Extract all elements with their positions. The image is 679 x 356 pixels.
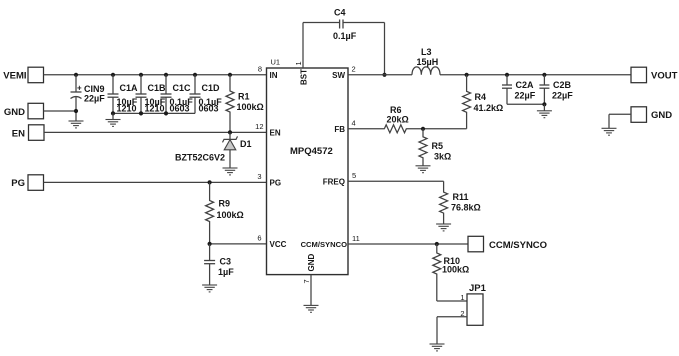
svg-text:C3: C3 xyxy=(220,257,232,267)
node IN/C1A junction xyxy=(111,73,115,77)
svg-text:0603: 0603 xyxy=(199,104,219,114)
svg-text:C2A: C2A xyxy=(516,80,535,90)
capacitor C3 xyxy=(204,244,234,285)
svg-text:R5: R5 xyxy=(432,141,444,151)
ground (IC pin 7) xyxy=(304,305,319,312)
wire FB net xyxy=(348,128,384,130)
capacitor C1A xyxy=(108,75,139,114)
node PG/R9 junction xyxy=(208,180,212,184)
svg-text:0.1µF: 0.1µF xyxy=(333,31,357,41)
node C2B bottom junction xyxy=(542,102,546,106)
resistor R11 xyxy=(440,181,481,224)
svg-text:12: 12 xyxy=(255,122,263,131)
pin 2 SW label xyxy=(332,64,356,80)
node CIN9/GND junction xyxy=(74,109,78,113)
svg-text:8: 8 xyxy=(258,64,262,73)
svg-text:R6: R6 xyxy=(390,105,402,115)
svg-text:SW: SW xyxy=(332,71,345,80)
node IN/C1B junction xyxy=(139,73,143,77)
wire BST riser xyxy=(302,23,304,69)
svg-text:R9: R9 xyxy=(219,199,231,209)
svg-text:11: 11 xyxy=(352,234,360,243)
node VOUT/C2A junction xyxy=(505,73,509,77)
wire GND port to CIN9 xyxy=(44,110,77,112)
node VOUT/C2B junction xyxy=(542,73,546,77)
ground (C2A/C2B) xyxy=(537,111,552,118)
wire PG net xyxy=(44,181,267,183)
ground (CIN9) xyxy=(69,121,84,128)
svg-text:41.2kΩ: 41.2kΩ xyxy=(474,103,504,113)
svg-text:4: 4 xyxy=(352,118,356,127)
port CCM/SYNCO xyxy=(468,236,547,252)
svg-text:C1C: C1C xyxy=(173,83,192,93)
zener diode D1 xyxy=(175,132,252,168)
wire VOUT rail xyxy=(440,74,631,76)
capacitor C1C xyxy=(161,75,194,114)
resistor R4 xyxy=(463,75,504,129)
wire C4 to SW xyxy=(384,23,386,75)
svg-text:VOUT: VOUT xyxy=(651,71,678,82)
wire R4 to FB node xyxy=(423,128,467,130)
svg-text:1210: 1210 xyxy=(117,104,137,114)
svg-text:C1A: C1A xyxy=(120,83,139,93)
node C1B bottom junction xyxy=(139,111,143,115)
node C1A bottom junction xyxy=(111,111,115,115)
svg-text:GND: GND xyxy=(651,110,672,121)
svg-text:MPQ4572: MPQ4572 xyxy=(290,146,333,157)
node IN/R1 junction xyxy=(228,73,232,77)
ground (C3) xyxy=(202,285,217,292)
wire VCC net xyxy=(210,243,267,245)
svg-text:1210: 1210 xyxy=(145,104,165,114)
wire cap bottom rail xyxy=(113,112,195,114)
wire IN rail xyxy=(44,74,267,76)
node CCM/R10 junction xyxy=(435,242,439,246)
svg-text:JP1: JP1 xyxy=(469,283,487,294)
svg-text:R1: R1 xyxy=(238,92,250,102)
pin 1 BST label xyxy=(294,61,309,85)
svg-text:FREQ: FREQ xyxy=(323,177,345,186)
wire C1A rail to ground xyxy=(112,113,114,119)
ground (input caps) xyxy=(106,120,121,127)
svg-text:R4: R4 xyxy=(475,92,487,102)
svg-text:EN: EN xyxy=(270,128,281,137)
svg-text:PG: PG xyxy=(270,178,282,187)
svg-text:3kΩ: 3kΩ xyxy=(434,152,451,162)
ground (R11) xyxy=(436,224,451,231)
svg-text:BST: BST xyxy=(300,69,309,85)
capacitor C2A xyxy=(502,75,536,105)
svg-text:3: 3 xyxy=(257,172,261,181)
capacitor C1B xyxy=(136,75,167,114)
svg-text:22µF: 22µF xyxy=(84,94,105,104)
resistor R6 xyxy=(384,105,408,133)
svg-text:C4: C4 xyxy=(334,8,346,18)
wire CCM/SYNCO net xyxy=(348,243,468,245)
node VCC/C3 junction xyxy=(208,242,212,246)
node IN/C1D junction xyxy=(193,73,197,77)
svg-text:20kΩ: 20kΩ xyxy=(387,115,409,125)
svg-text:22µF: 22µF xyxy=(515,91,536,101)
capacitor C4 xyxy=(333,8,357,42)
svg-text:CIN9: CIN9 xyxy=(84,84,105,94)
svg-text:BZT52C6V2: BZT52C6V2 xyxy=(175,153,225,163)
pin 3 PG label xyxy=(257,172,281,188)
svg-text:15µH: 15µH xyxy=(417,57,439,67)
resistor R5 xyxy=(419,129,451,166)
ground (output GND) xyxy=(602,128,617,135)
svg-text:2: 2 xyxy=(352,64,356,73)
svg-text:CCM/SYNCO: CCM/SYNCO xyxy=(301,240,348,249)
port VOUT xyxy=(631,67,678,83)
pin 11 CCM/SYNCO label xyxy=(301,234,360,249)
svg-text:GND: GND xyxy=(307,254,316,272)
svg-text:PG: PG xyxy=(11,178,25,189)
capacitor C1D xyxy=(190,75,223,114)
svg-text:C2B: C2B xyxy=(553,80,572,90)
pin 4 FB label xyxy=(334,118,355,134)
node VOUT/R4 junction xyxy=(465,73,469,77)
svg-text:6: 6 xyxy=(257,233,261,242)
node FB/R5 junction xyxy=(421,127,425,131)
svg-text:1: 1 xyxy=(460,293,464,302)
capacitor CIN9 (polarized) xyxy=(71,75,106,121)
svg-text:D1: D1 xyxy=(240,139,252,149)
inductor L3 xyxy=(412,47,440,75)
port EN xyxy=(12,125,44,141)
wire JP1 pin 2 lead xyxy=(437,317,467,344)
svg-text:EN: EN xyxy=(12,128,25,139)
resistor R10 xyxy=(433,244,469,301)
connector JP1 xyxy=(467,283,487,325)
ground (JP1) xyxy=(430,344,445,351)
wire C4 left segment xyxy=(303,22,339,24)
pin 1 JP1 label xyxy=(460,293,464,302)
svg-text:5: 5 xyxy=(352,171,356,180)
svg-text:R11: R11 xyxy=(453,192,469,202)
svg-text:76.8kΩ: 76.8kΩ xyxy=(451,203,481,213)
svg-text:100kΩ: 100kΩ xyxy=(442,265,469,275)
svg-text:1µF: 1µF xyxy=(218,267,234,277)
port VEMI xyxy=(3,67,43,83)
wire C4 right segment xyxy=(343,22,384,24)
capacitor C2B xyxy=(539,75,573,105)
svg-text:FB: FB xyxy=(334,125,345,134)
op-amp U1 MPQ4572 body xyxy=(267,58,349,275)
svg-text:C1D: C1D xyxy=(202,83,221,93)
port PG xyxy=(11,175,43,191)
resistor R1 xyxy=(226,75,264,133)
wire EN net xyxy=(44,131,267,133)
svg-text:0603: 0603 xyxy=(170,104,190,114)
pin 6 VCC label xyxy=(257,233,286,249)
svg-text:VCC: VCC xyxy=(270,240,287,249)
node IN/C1C junction xyxy=(164,73,168,77)
wire C2 bottom rail xyxy=(507,103,544,105)
svg-text:100kΩ: 100kΩ xyxy=(217,210,244,220)
svg-text:1: 1 xyxy=(294,61,303,65)
svg-text:U1: U1 xyxy=(271,58,281,67)
pin 8 IN label xyxy=(258,64,278,80)
pin 2 JP1 label xyxy=(460,309,464,318)
wire FREQ net xyxy=(348,180,444,182)
svg-text:22µF: 22µF xyxy=(552,91,573,101)
ground (R5) xyxy=(416,166,431,173)
svg-text:+: + xyxy=(77,84,82,93)
wire SW net xyxy=(348,74,412,76)
node C1C bottom junction xyxy=(164,111,168,115)
port GND (input) xyxy=(4,103,44,119)
svg-text:IN: IN xyxy=(270,71,278,80)
pin 7 GND label xyxy=(302,254,316,284)
svg-text:100kΩ: 100kΩ xyxy=(237,102,264,112)
node EN/D1 junction xyxy=(228,130,232,134)
svg-text:VEMI: VEMI xyxy=(3,71,26,82)
svg-text:C1B: C1B xyxy=(148,83,167,93)
ground (D1) xyxy=(223,168,238,175)
wire R6 to junction xyxy=(406,128,423,130)
svg-text:L3: L3 xyxy=(421,47,432,57)
pin 12 EN label xyxy=(255,122,281,138)
wire C2 gnd drop xyxy=(543,104,545,111)
node SW/C4 junction xyxy=(382,73,386,77)
pin 5 FREQ label xyxy=(323,171,356,187)
wire GND pin 7 xyxy=(310,275,312,306)
wire R10 to JP1 pin 1 xyxy=(437,300,467,302)
resistor R9 xyxy=(206,182,244,244)
svg-text:GND: GND xyxy=(4,107,25,118)
node IN/CIN9 junction xyxy=(74,73,78,77)
svg-text:CCM/SYNCO: CCM/SYNCO xyxy=(489,240,547,251)
port GND (output) xyxy=(631,107,672,123)
svg-text:7: 7 xyxy=(302,279,311,283)
wire GND port lead xyxy=(609,114,631,128)
